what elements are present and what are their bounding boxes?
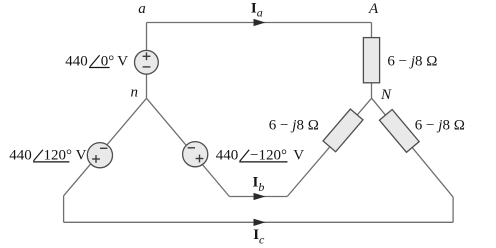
svg-text:V: V [76,147,87,163]
svg-text:440: 440 [216,148,239,164]
arrow Ib [254,193,266,200]
svg-text:n: n [131,85,139,101]
wire diagonal up to N [287,98,371,196]
resistor ZB 6-j8 (left diagonal) [323,109,363,152]
wire Ib horizontal [229,196,287,198]
wire bottom Ic [64,221,454,223]
source Van 440/0 (circle) [135,50,159,74]
svg-text:V: V [293,148,304,164]
svg-text:Ib: Ib [253,174,265,194]
source Vbn 440/120 (circle) [87,143,112,168]
svg-text:V: V [117,54,128,70]
svg-text:a: a [138,1,146,17]
svg-text:440: 440 [9,147,32,163]
arrow Ic [254,219,266,226]
resistor ZC 6-j8 (right diagonal) [379,109,419,152]
svg-text:6 − j8 Ω: 6 − j8 Ω [387,54,437,70]
arrow Ia [254,19,266,26]
svg-text:A: A [368,1,379,17]
wire right vertical [452,197,454,222]
wire n diagonal down-right to c source [147,98,230,196]
wire A down to N [371,23,373,99]
svg-text:N: N [380,87,392,103]
source Vcn 440/-120 (circle) [183,142,208,167]
wire N diagonal down-right [372,98,454,197]
svg-text:6 − j8 Ω: 6 − j8 Ω [269,118,319,134]
svg-text:120°: 120° [44,147,73,163]
svg-text:Ic: Ic [253,227,265,247]
svg-text:0°: 0° [101,54,115,70]
svg-text:−120°: −120° [250,148,287,164]
wire left vertical [63,196,65,223]
resistor ZA 6-j8 (vertical) [363,38,379,83]
wire a down to n [146,23,148,99]
wire n diagonal down-left to b corner [64,98,147,196]
svg-text:6 − j8 Ω: 6 − j8 Ω [415,118,465,134]
svg-text:440: 440 [65,54,88,70]
svg-text:Ia: Ia [251,0,263,19]
wire a to A (top) [147,22,372,24]
